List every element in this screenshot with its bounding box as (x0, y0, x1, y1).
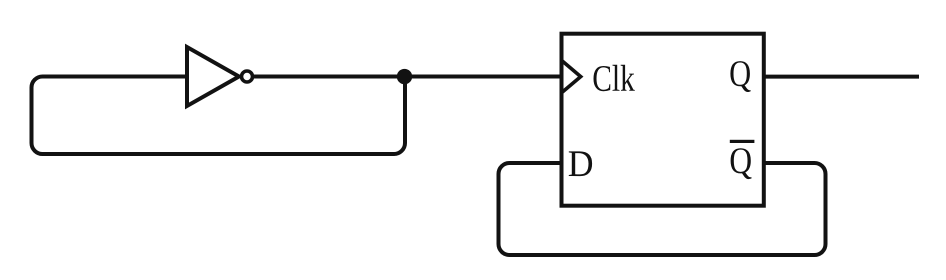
inverter U1 triangle (187, 47, 239, 106)
node: junction dot (397, 69, 412, 84)
label D (569, 151, 592, 176)
wire: inverter output to Clk input (252, 75, 562, 79)
overline of Qbar (730, 140, 755, 143)
clock edge-trigger wedge (562, 61, 581, 93)
label Qbar (731, 148, 752, 179)
wire: feedback loop from junction around to inverter input (32, 77, 406, 155)
wire: Qbar to D feedback loop (499, 163, 826, 255)
wire: Q output (764, 75, 919, 79)
inverter U1 output bubble (242, 71, 253, 82)
label Clk (594, 65, 635, 91)
D flip-flop U2 box (562, 34, 764, 206)
label Q (730, 61, 750, 92)
